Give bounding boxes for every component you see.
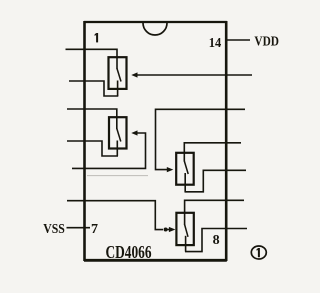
switch S3 bottom stub (184, 173, 186, 192)
pin-1 index notch (143, 23, 167, 35)
wire pin 1 (IN A) (66, 49, 118, 58)
switch S1 bottom stub (117, 81, 119, 97)
switch S1 blade (117, 69, 121, 82)
switch S4 bottom stub (185, 236, 187, 252)
wire pin 5 control B with arrow into S2 (72, 130, 146, 168)
ghost scan line under pin5 wire (87, 175, 148, 177)
switch S4 pole top (184, 213, 186, 225)
wire pin 9 (IN C) (185, 200, 244, 214)
pin 1 label (94, 33, 98, 42)
svg-text:14: 14 (209, 36, 222, 51)
wire pin 11 (IN D) (184, 143, 241, 154)
switch S3 pole top (183, 153, 185, 162)
wire pin 3 (OUT B) (67, 109, 117, 118)
switch S4 box (176, 213, 193, 245)
switch S4 blade (185, 225, 188, 237)
switch S3 box (176, 153, 194, 185)
svg-text:VSS: VSS (43, 222, 65, 237)
switch S2 blade (117, 129, 121, 142)
wire pin 10 (OUT D) zigzag from S3 bottom (185, 170, 247, 192)
switch S1 pole top (116, 57, 118, 69)
wire pin 13 control A with arrow into S1 (131, 72, 252, 77)
svg-text:VDD: VDD (254, 35, 279, 50)
svg-text:7: 7 (91, 222, 98, 237)
switch S2 box (109, 117, 127, 148)
IC U1 CD4066 body outline (84, 21, 227, 261)
figure number circled 1 (251, 246, 266, 259)
wire pin 12 control D with arrow into S3 (156, 109, 246, 172)
wire pin 8 (OUT C) zigzag from S4 bottom (185, 229, 247, 252)
wire pin 6 control C with arrow into S4 (67, 201, 175, 232)
switch S2 pole top (116, 117, 118, 129)
svg-text:CD4066: CD4066 (106, 242, 152, 262)
wire pin 2 (OUT A) zigzag to S1 bottom (69, 81, 118, 96)
switch S3 blade (184, 161, 188, 174)
switch S1 box (109, 57, 127, 89)
svg-text:8: 8 (213, 233, 220, 248)
switch S2 bottom stub (116, 141, 118, 157)
wire pin 7 VSS (67, 227, 91, 229)
wire pin 4 (IN B) zigzag to S2 bottom (67, 141, 118, 156)
wire pin 14 VDD (227, 39, 251, 41)
